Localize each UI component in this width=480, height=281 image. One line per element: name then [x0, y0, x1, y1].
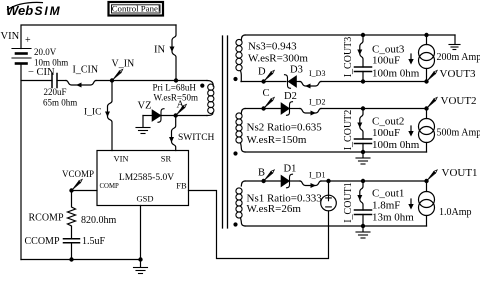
winding Ns2: [241, 109, 245, 114]
svg-text:A: A: [177, 100, 185, 111]
svg-text:100uF: 100uF: [372, 55, 400, 67]
svg-text:V_IN: V_IN: [112, 59, 135, 70]
node C_out2 bottom: [361, 150, 365, 154]
probe I_D3 (current arrow, left): [300, 82, 321, 87]
svg-text:200m Amp: 200m Amp: [437, 52, 480, 63]
svg-text:500m Amp: 500m Amp: [437, 128, 480, 139]
WebSIM logo: [6, 2, 62, 18]
svg-text:VOUT1: VOUT1: [442, 167, 478, 179]
svg-text:LM2585-5.0V: LM2585-5.0V: [119, 173, 174, 183]
diode D3 (pointing left, schottky): [285, 75, 291, 89]
svg-text:20.0V: 20.0V: [34, 47, 57, 57]
wire Ns2 bottom rail: [245, 151, 427, 153]
probe I_COUT3 branch: [360, 35, 363, 67]
node C_out1 top: [361, 179, 365, 183]
wire COMP pin: [72, 190, 98, 192]
current source I2: [426, 109, 428, 119]
wire FB feedback loop to V1: [189, 191, 329, 259]
svg-text:Ns3=0.943: Ns3=0.943: [248, 41, 297, 53]
wire CIN to I_CIN: [57, 80, 66, 82]
svg-text:10m 0hm: 10m 0hm: [34, 58, 68, 68]
svg-text:COMP: COMP: [100, 183, 119, 190]
svg-text:I_COUT3: I_COUT3: [343, 37, 354, 78]
node C: [261, 106, 265, 110]
svg-text:D3: D3: [290, 65, 303, 76]
svg-text:VZ: VZ: [138, 101, 152, 112]
node V_IN: [110, 78, 114, 82]
capacitor C_out3: [355, 67, 372, 72]
svg-text:1.5uF: 1.5uF: [82, 236, 106, 247]
svg-text:SWITCH: SWITCH: [178, 133, 215, 143]
ground (VZ anode): [142, 116, 144, 128]
probe IN (current arrow on wire): [172, 25, 176, 81]
capacitor C_out1: [355, 210, 372, 215]
svg-text:C: C: [263, 88, 270, 99]
zener diode VZ: [143, 115, 152, 117]
node VOUT1: [424, 179, 428, 183]
Control Panel button: [109, 2, 164, 16]
probe I_COUT1 branch: [360, 181, 363, 210]
svg-text:W.esR=300m: W.esR=300m: [248, 53, 308, 65]
svg-text:I_IC: I_IC: [84, 108, 101, 118]
svg-text:RCOMP: RCOMP: [29, 213, 64, 224]
current source I3: [426, 35, 428, 45]
ground (block3 top right): [454, 35, 456, 44]
svg-text:820.0hm: 820.0hm: [81, 215, 117, 226]
Ns1 phase dot: [233, 222, 237, 226]
svg-text:C_out1: C_out1: [372, 188, 404, 200]
resistor RCOMP: [68, 191, 76, 239]
svg-text:C_out2: C_out2: [372, 116, 404, 128]
svg-text:D: D: [258, 67, 266, 78]
svg-text:VIN: VIN: [113, 154, 128, 164]
svg-text:Pri L=68uH: Pri L=68uH: [153, 83, 197, 93]
svg-text:100m 0hm: 100m 0hm: [372, 67, 420, 79]
ground rail bottom: [21, 259, 141, 261]
wire GSD pin down: [140, 206, 142, 260]
node source3 top: [424, 33, 428, 37]
wire V_IN rail: [96, 80, 207, 82]
svg-text:VOUT2: VOUT2: [441, 95, 477, 107]
current source I1: [426, 181, 428, 192]
wire VIN top rail to IN: [21, 25, 176, 49]
svg-text:VCOMP: VCOMP: [62, 169, 94, 179]
probe I_CIN (current arrow on wire): [66, 81, 96, 86]
svg-text:FB: FB: [176, 181, 187, 191]
svg-text:100m 0hm: 100m 0hm: [372, 139, 420, 151]
transformer primary winding: [207, 81, 213, 87]
node C_out3 top: [361, 33, 365, 37]
wire battery minus down to ground rail: [20, 64, 22, 260]
svg-text:1.0Amp: 1.0Amp: [439, 207, 472, 218]
node VOUT2: [424, 106, 428, 110]
transformer core: [223, 36, 228, 228]
node V1 top: [326, 179, 330, 183]
voltage source V1 (feedback): [328, 181, 330, 195]
ground (main): [140, 260, 142, 268]
svg-text:IN: IN: [154, 45, 165, 56]
wire Ns1 top rail: [245, 180, 281, 182]
svg-text:VIN: VIN: [1, 31, 20, 42]
winding Ns3: [241, 35, 245, 40]
node C_out3 bottom: [361, 79, 365, 83]
svg-text:13m 0hm: 13m 0hm: [372, 212, 414, 224]
ground (block1): [362, 226, 364, 232]
current arrow glyph block3: [410, 54, 412, 63]
wire primary bottom to node A: [176, 115, 207, 117]
svg-text:I_CIN: I_CIN: [73, 65, 99, 76]
svg-text:I_D2: I_D2: [309, 98, 325, 107]
wire Ns3 top rail: [245, 34, 455, 36]
svg-text:I_COUT1: I_COUT1: [343, 182, 354, 223]
svg-text:+: +: [25, 35, 31, 46]
svg-text:W.esR=150m: W.esR=150m: [247, 134, 307, 146]
node A: [174, 113, 178, 117]
svg-text:W.esR=26m: W.esR=26m: [247, 203, 302, 215]
current arrow glyph block2: [410, 126, 412, 135]
wire Ns2 top rail: [245, 108, 281, 110]
capacitor CCOMP: [64, 239, 80, 243]
probe I_D1 (current arrow, right): [300, 181, 321, 186]
node CCOMP-rail: [69, 257, 73, 261]
svg-text:100uF: 100uF: [372, 127, 400, 139]
svg-text:1.8mF: 1.8mF: [372, 200, 400, 212]
winding Ns1: [241, 181, 245, 186]
svg-text:− CIN: − CIN: [28, 67, 55, 78]
probe I_COUT2 branch: [360, 109, 363, 140]
node C_out2 top: [361, 106, 365, 110]
probe SWITCH wire down to SR pin: [172, 116, 176, 151]
wire D3 to outputs: [321, 81, 427, 83]
svg-text:I_COUT2: I_COUT2: [343, 110, 354, 151]
current arrow glyph block1: [410, 199, 412, 208]
svg-text:65m 0hm: 65m 0hm: [43, 98, 77, 108]
svg-text:D1: D1: [284, 164, 297, 175]
svg-text:B: B: [258, 168, 265, 179]
ground (block2): [362, 152, 364, 158]
node B: [261, 179, 265, 183]
Ns2 phase dot: [233, 151, 237, 155]
primary phase dot: [200, 84, 204, 88]
wire CIN left: [21, 80, 52, 82]
node GSD-rail: [138, 257, 142, 261]
svg-text:Web: Web: [6, 3, 33, 18]
node VOUT3: [424, 79, 428, 83]
Ns3 phase dot: [233, 77, 237, 81]
svg-text:CCOMP: CCOMP: [25, 236, 60, 247]
wire D1 to outputs: [321, 180, 427, 182]
battery VIN: [12, 49, 31, 64]
wire Ns3 bottom rail: [241, 81, 286, 83]
diode D2 (pointing right, schottky): [281, 103, 290, 115]
wire Ns1 bottom rail: [245, 225, 427, 227]
svg-text:I_D1: I_D1: [309, 171, 325, 180]
probe I_IC wire down to VIN pin: [108, 81, 113, 151]
diode D1 (pointing right, schottky): [281, 175, 290, 187]
capacitor CIN: [52, 74, 57, 88]
svg-text:Control Panel: Control Panel: [112, 4, 161, 14]
node D: [261, 79, 265, 83]
svg-text:220uF: 220uF: [44, 87, 67, 97]
svg-text:VOUT3: VOUT3: [440, 68, 477, 80]
node C_out1 bottom: [361, 224, 365, 228]
node junction IN rail: [174, 78, 178, 82]
svg-text:I_D3: I_D3: [309, 69, 325, 78]
svg-text:SR: SR: [161, 154, 172, 164]
svg-text:SIM: SIM: [35, 4, 62, 18]
svg-text:GSD: GSD: [136, 194, 153, 204]
svg-text:D2: D2: [284, 91, 297, 102]
wire D2 to outputs: [321, 108, 427, 110]
svg-text:Ns2 Ratio=0.635: Ns2 Ratio=0.635: [247, 122, 323, 134]
op-amp U1 LM2585-5.0V box: [97, 151, 189, 206]
probe I_D2 (current arrow, right): [300, 109, 321, 114]
capacitor C_out2: [355, 139, 372, 144]
node VCOMP: [69, 188, 73, 192]
